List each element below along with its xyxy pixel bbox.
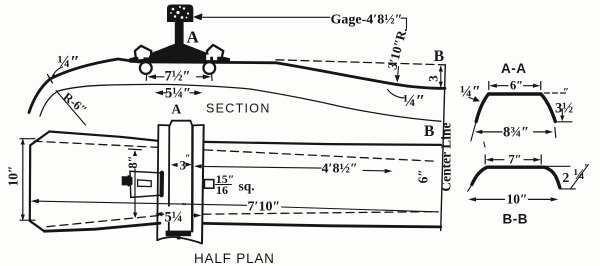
5 1/4 (plan) text (164, 207, 191, 223)
gage leader arrowhead (193, 13, 203, 20)
svg-text:3: 3 (426, 75, 441, 82)
A-A hat profile (476, 94, 555, 122)
5.25 plan dim arrowheads (155, 212, 163, 216)
svg-text:″: ″ (584, 162, 590, 174)
rail head (167, 5, 193, 23)
plan lower dashed hidden edge (47, 212, 437, 227)
head speckles (170, 6, 189, 19)
8 dim arrowheads (133, 150, 137, 156)
svg-text:8″: 8″ (126, 155, 140, 168)
svg-text:¼″: ¼″ (460, 83, 481, 100)
7'10 dim line (39, 201, 439, 212)
radius line R-6 (56, 91, 86, 126)
3 dim arrows at end (439, 66, 443, 72)
B-B 7 dim (485, 155, 541, 164)
B-B hat profile (472, 167, 560, 187)
arrowheads (21, 13, 565, 220)
15/16 fraction bar (216, 184, 232, 186)
5 1/4 plan dim shafts (162, 214, 195, 215)
dashed gage-level line (section) (276, 60, 444, 65)
plan upper dashed hidden edge (34, 141, 437, 161)
white notches right (206, 55, 210, 61)
rail band top caps (158, 124, 203, 126)
A-A 6 dim (489, 82, 541, 90)
svg-text:4′8½″: 4′8½″ (322, 162, 358, 177)
svg-text:HALF PLAN: HALF PLAN (194, 251, 275, 266)
15/16 square symbol (204, 180, 213, 189)
svg-text:B-B: B-B (503, 212, 529, 227)
right bolt circle (203, 62, 215, 74)
B-B 10 dim shafts (476, 198, 550, 200)
plan outline: left end chamfers (30, 132, 50, 232)
svg-text:3½: 3½ (555, 101, 573, 117)
3 dim vertical line at end (440, 67, 442, 87)
A-A dashed top extension (545, 92, 568, 94)
rail band outer-right line (202, 125, 204, 243)
plan bottom edge (44, 223, 441, 231)
leader 3'10"R arrow line (397, 67, 400, 76)
A-A 8.75 arrowheads (475, 130, 483, 134)
svg-text:B: B (434, 48, 444, 65)
rail cross-section assembly (130, 5, 231, 74)
svg-text:7″: 7″ (509, 153, 522, 167)
svg-text:B: B (424, 123, 434, 140)
A-A 8 3/4 dim (482, 128, 556, 138)
svg-text:sq.: sq. (239, 179, 255, 194)
A-A quarter leader arrow line (469, 98, 478, 101)
svg-text:2: 2 (563, 170, 570, 185)
rail band inner-left line (168, 126, 171, 232)
7 1/2 dim ticks and shafts (146, 72, 212, 81)
tie bottom thin line (section) (40, 84, 441, 121)
svg-text:8¾″: 8¾″ (503, 125, 529, 141)
rail head end bar (166, 231, 192, 237)
white notches left (138, 53, 144, 59)
svg-text:6″: 6″ (510, 79, 523, 93)
svg-text:A-A: A-A (501, 61, 527, 76)
svg-text:¼″: ¼″ (58, 52, 80, 71)
10 dim line left (20, 139, 35, 221)
7'10 arrowhead (31, 199, 39, 203)
B-B bottom-right extension (561, 188, 576, 190)
gage leader line (201, 17, 407, 28)
4'8 1/2 dim line (201, 166, 385, 171)
3'10 R down arrowhead (395, 75, 400, 82)
svg-text:SECTION: SECTION (206, 102, 271, 116)
tie top surface thick line (section) (29, 59, 445, 113)
A-A 3.5 down arrowhead (560, 116, 564, 122)
left bolt circle (140, 62, 152, 74)
svg-text:″: ″ (563, 86, 569, 98)
bolt head (plan) (122, 175, 133, 187)
svg-text:5¼″: 5¼″ (165, 86, 191, 102)
A-A 3 1/2 drop arrow (558, 109, 573, 122)
rail band cap trapezoid (169, 121, 192, 127)
plate thick edge (160, 173, 164, 196)
plate slot (138, 180, 152, 187)
rail band sleeve bottom curve (157, 237, 202, 243)
A-A quarter arrowhead (473, 96, 480, 102)
tick mark on curve (46, 75, 55, 84)
quarter-inch leader (right, near end) (388, 90, 405, 99)
svg-text:A: A (187, 27, 200, 46)
5.25 dim arrowheads (155, 90, 163, 95)
B-B top-right extension (546, 165, 571, 167)
A-A left extension (471, 122, 485, 147)
7.5 dim arrowheads (148, 74, 157, 79)
plan top edge (49, 132, 440, 145)
8 dim line (129, 149, 142, 214)
svg-text:10″: 10″ (6, 166, 21, 187)
5 1/4 dim shafts (162, 92, 195, 94)
rail band inner-right line (191, 126, 194, 232)
svg-text:″: ″ (185, 154, 191, 165)
B-B 10 dim arrowheads (468, 197, 476, 201)
left clip hook outline (135, 46, 152, 59)
quarter-inch leader (left) (52, 67, 63, 79)
svg-text:7½″: 7½″ (165, 69, 191, 85)
rail band outer-left line (157, 125, 158, 240)
A-A 6 dim arrowheads (489, 84, 497, 88)
svg-text:A: A (172, 102, 182, 117)
svg-text:Gage-4′8½″: Gage-4′8½″ (331, 13, 403, 28)
rail head end stem (177, 236, 180, 239)
4'8.5 dim arrowheads (194, 164, 202, 168)
svg-text:16: 16 (216, 183, 228, 197)
rail web, base and seat silhouette (130, 21, 231, 63)
svg-text:¼″: ¼″ (403, 91, 425, 110)
10 dim arrowheads (21, 139, 25, 145)
center line vertical (441, 65, 446, 231)
svg-text:6″: 6″ (416, 169, 431, 183)
svg-text:5¼: 5¼ (165, 210, 183, 226)
svg-text:10″: 10″ (507, 192, 528, 207)
B-B 2 1/4 diagonal (571, 165, 588, 188)
svg-text:″: ″ (182, 202, 188, 213)
B-B left extension (468, 185, 472, 192)
clip plate (plan) (130, 171, 161, 197)
B-B 7 dim arrowheads (486, 158, 494, 162)
svg-text:Center Line: Center Line (439, 122, 454, 191)
3 dim (plan) arrowheads (171, 163, 178, 167)
svg-text:7′10″: 7′10″ (248, 200, 281, 215)
right clip hook outline (207, 45, 223, 58)
